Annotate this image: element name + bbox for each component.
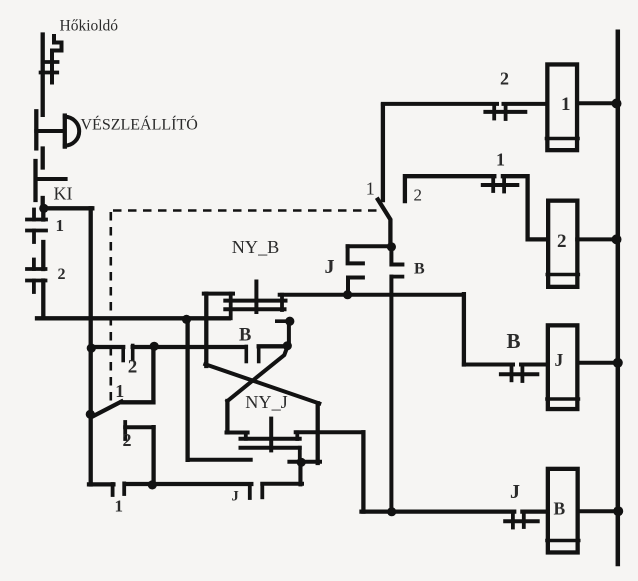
contact J left side lower with drop to wire — [348, 278, 363, 295]
wire diagonal A (cross upper-left to lower-right) — [205, 364, 319, 403]
contact J-B common: top horizontal — [348, 244, 392, 248]
svg-text:Hőkioldó: Hőkioldó — [60, 18, 119, 35]
pushbutton KI actuator bar — [36, 177, 66, 181]
contact 1 tick right (coil 2 feed) — [502, 176, 506, 191]
svg-text:B: B — [239, 326, 251, 346]
wire NY_B output to right — [280, 293, 464, 297]
changeover throw 2 wire — [125, 425, 153, 429]
contact J bottom tick right — [260, 484, 264, 497]
contact B tick left — [245, 347, 249, 362]
wire riser right x=288.9 — [287, 321, 291, 346]
wire coil J feed horizontal — [464, 363, 546, 367]
contact 1 tick left (coil 2 feed) — [491, 176, 495, 191]
svg-text:J: J — [555, 350, 564, 370]
thermal overload release F1 (Hokioldo) zigzag — [52, 36, 62, 83]
contact B bridge bar — [501, 372, 537, 376]
changeover throw 1 wire — [122, 400, 154, 404]
svg-text:KI: KI — [54, 184, 73, 204]
svg-text:NY_J: NY_J — [245, 392, 287, 412]
svg-text:J: J — [325, 256, 335, 278]
node top changeover to contacts — [387, 242, 396, 251]
wire feed horizontal under NY_J — [188, 458, 251, 462]
pushbutton NY_B left connector — [229, 294, 233, 319]
node y348 junction left — [87, 344, 96, 353]
thermal overload crossing bar 1 — [43, 60, 58, 64]
wire vertical x=227.4 — [225, 401, 229, 432]
pushbutton NY_B actuator stem — [254, 282, 258, 313]
changeover throw 2 tick — [123, 422, 127, 439]
svg-text:1: 1 — [115, 497, 124, 516]
svg-text:B: B — [554, 499, 566, 519]
svg-text:1: 1 — [115, 381, 124, 401]
pushbutton NY_J bar bottom — [241, 446, 300, 450]
contact 2 lower stub — [32, 281, 36, 293]
wire long vertical x=90.7 — [89, 208, 93, 484]
thermal overload crossing bar 2 — [41, 71, 58, 75]
node bus coil B — [613, 506, 623, 516]
changeover switch 1 blade (lower) — [93, 402, 122, 417]
svg-text:J: J — [232, 489, 239, 505]
pushbutton NY_B left wire — [204, 292, 233, 296]
wire coil 1 to bus — [579, 101, 615, 105]
wire bottom rail right of J contact — [262, 462, 302, 484]
wire coil 1 feed — [383, 102, 547, 106]
wire long vertical x=391.4 from contact B to coil B feed — [389, 277, 393, 512]
node bottom rail junction — [148, 480, 157, 489]
contact 2 tick right on y347 — [131, 346, 135, 360]
emergency stop actuator link — [36, 129, 62, 133]
svg-text:2: 2 — [414, 185, 423, 204]
contact 2 tick left on y347 — [121, 347, 125, 361]
wire left rail bottom with corner — [37, 281, 229, 319]
pushbutton NY_J right connector — [295, 432, 299, 439]
contact 1 lower stub — [32, 231, 36, 243]
contact B tick right (coil J feed) — [521, 365, 525, 382]
wire vertical x=317.7 — [316, 403, 320, 463]
node bus coil J — [613, 358, 623, 368]
emergency stop mushroom head bar — [63, 116, 67, 147]
svg-text:B: B — [414, 260, 425, 277]
right bus bar — [616, 32, 621, 564]
coil K2 rectangle — [548, 201, 577, 287]
node y318 rail junction — [182, 315, 191, 324]
contact 1 bar bottom — [27, 229, 46, 233]
svg-text:2: 2 — [500, 69, 509, 89]
contact 1 bridge bar — [483, 183, 518, 187]
svg-text:2: 2 — [58, 266, 66, 283]
svg-text:2: 2 — [557, 231, 567, 252]
contact 2 bridge bar — [485, 110, 525, 114]
wire output junction horizontal y=461.8 — [289, 460, 320, 464]
svg-text:1: 1 — [56, 216, 65, 235]
wire coil B feed riser x=363.4 — [361, 432, 365, 511]
contact 2 bar top — [27, 267, 46, 271]
wire coil B feed horizontal — [362, 509, 547, 513]
svg-text:2: 2 — [123, 430, 132, 450]
pushbutton NY_B bar top — [225, 299, 285, 303]
node NY_J output junction — [297, 458, 306, 467]
svg-text:NY_B: NY_B — [232, 237, 279, 257]
contact B right side upper — [391, 247, 402, 265]
contact J tick left (coil B feed) — [511, 512, 515, 528]
dashed mechanical link vertical — [110, 212, 113, 401]
coil B inner line — [547, 539, 579, 543]
coil J rectangle — [548, 325, 578, 409]
contact 1 bottom tick right — [122, 483, 126, 494]
contact J bridge bar — [505, 519, 538, 523]
node coil B feed junction — [387, 507, 396, 516]
wire junction branch to right — [44, 206, 93, 210]
coil K1 rectangle — [547, 64, 577, 150]
wire vertical x=153.4 throw1 riser — [151, 347, 155, 402]
pushbutton NY_J actuator stem — [269, 419, 273, 451]
wire coil B to bus — [579, 509, 616, 513]
contact B tick left (coil J feed) — [510, 365, 514, 381]
wire feed vertical x=187.6 — [185, 319, 189, 459]
coil J inner line — [547, 397, 578, 401]
dashed mechanical link horizontal — [113, 209, 379, 212]
wire coil J to bus — [580, 361, 616, 365]
contact J left side upper — [348, 246, 363, 263]
svg-text:1: 1 — [496, 150, 505, 170]
svg-text:2: 2 — [128, 357, 138, 378]
svg-text:1: 1 — [561, 94, 571, 115]
pushbutton NY_J bar2 output connector — [298, 448, 302, 462]
wire diagonal B (cross upper-right to lower-left) — [227, 347, 287, 401]
wire KI to junction — [41, 198, 45, 208]
node changeover common — [86, 410, 95, 419]
stub at y=321 — [277, 319, 290, 323]
wire horizontal y=347 — [91, 345, 246, 349]
contact J tick right (coil B feed) — [522, 512, 526, 527]
node NY_B output junction — [343, 290, 352, 299]
contact 2 upper stub — [32, 260, 36, 270]
node left rail junction — [39, 204, 48, 213]
emergency stop mushroom head arc — [65, 117, 79, 146]
pushbutton NY_B right connector — [280, 295, 284, 310]
pushbutton NY_J bar top — [241, 437, 300, 441]
wire y346.4 right portion — [259, 344, 289, 348]
svg-text:VÉSZLEÁLLÍTÓ: VÉSZLEÁLLÍTÓ — [81, 115, 198, 134]
node y346 diag junction — [283, 341, 292, 350]
changeover switch top blade — [378, 200, 391, 247]
wire junction to contact 1 — [41, 208, 45, 219]
svg-text:1: 1 — [366, 179, 375, 199]
coil K1 inner line — [547, 137, 579, 141]
contact 2 tick right (coil 1 feed) — [504, 104, 508, 119]
coil B rectangle — [548, 469, 578, 553]
node stub junction y321 — [285, 317, 294, 326]
changeover switch top: throw 1 terminal vertical — [381, 105, 385, 201]
svg-text:J: J — [510, 481, 520, 503]
wire coil J feed riser x=463.9 — [462, 294, 466, 364]
node bus coil 2 — [612, 234, 622, 244]
wire left rail top vertical — [41, 35, 45, 115]
wire vertical x=153.6 down to bottom rail — [151, 427, 155, 485]
wire NY_B left long vertical — [204, 294, 208, 366]
emergency stop NC contact bar — [34, 111, 38, 148]
node y346 junction right — [150, 342, 159, 351]
node bus coil 1 — [612, 99, 622, 109]
wire junction down to bottom rail — [298, 462, 302, 484]
contact B right side lower stub — [391, 275, 402, 279]
pushbutton NY_J right wire — [296, 430, 364, 434]
contact 1 bottom tick left — [111, 484, 115, 495]
pushbutton KI NC contact bar — [33, 161, 37, 200]
wire between contact 1 and contact 2 — [41, 242, 45, 269]
wire bottom rail left — [89, 482, 251, 487]
pushbutton NY_B bar bottom — [225, 307, 284, 311]
contact 1 bar top — [27, 218, 46, 222]
contact 2 tick left (coil 1 feed) — [492, 104, 496, 119]
changeover top throw 2 terminal and coil 2 feed — [405, 176, 546, 239]
wire coil 2 to bus — [577, 237, 615, 241]
pushbutton NY_J left wire — [227, 431, 248, 435]
wire dashes below emergency stop — [41, 149, 45, 168]
pushbutton NY_J left connector — [244, 433, 248, 439]
contact 2 bar bottom — [27, 279, 46, 283]
contact B tick right — [257, 347, 261, 362]
svg-text:B: B — [507, 329, 521, 353]
contact 1 upper stub — [32, 210, 36, 220]
coil K2 inner line — [547, 273, 578, 277]
contact J bottom tick left — [248, 485, 252, 499]
